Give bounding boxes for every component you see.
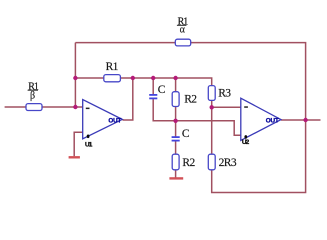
wire C1 bottom to mid line to U2 non-inverting input xyxy=(153,99,241,135)
junction at feedback rail left end xyxy=(73,76,77,80)
op-amp U2 xyxy=(241,98,281,146)
value label R1/alpha fraction xyxy=(177,16,188,35)
wire outer feedback loop: top rail, right vertical, bottom rail xyxy=(75,43,305,193)
resistor R3 body xyxy=(208,86,215,101)
svg-text:OUT: OUT xyxy=(108,118,121,125)
junction at R1-beta / left vertical / U1 inverting input xyxy=(73,105,77,109)
wire rail through R1 to R3 top xyxy=(75,78,211,86)
junction at C1 tap on rail xyxy=(151,76,155,80)
resistor R2 body (upper) xyxy=(172,92,179,107)
svg-text:R3: R3 xyxy=(218,88,231,100)
svg-text:C: C xyxy=(182,128,190,140)
wire R2 bottom through junction to C2 top xyxy=(175,106,177,136)
wire U1 non-inverting input to ground xyxy=(74,132,83,156)
ground GND1 at U1 non-inverting input xyxy=(69,156,80,158)
junction at R2 tap on rail xyxy=(173,76,177,80)
pin plus U2 xyxy=(244,135,247,139)
capacitor C1 plates xyxy=(149,94,157,96)
svg-text:U1: U1 xyxy=(85,142,93,149)
junction at R2 bottom / C2 / mid line xyxy=(173,119,177,123)
resistor R2 body (lower) xyxy=(172,154,179,170)
ground GND2 below lower R2 xyxy=(169,177,183,179)
svg-text:R1: R1 xyxy=(106,61,119,73)
wire input line through R1/beta to U1 inverting input xyxy=(5,106,83,108)
pin plus U1 xyxy=(87,135,90,139)
svg-text:β: β xyxy=(30,91,35,102)
svg-text:R2: R2 xyxy=(182,157,195,169)
resistor R1/alpha body (top feedback) xyxy=(175,39,190,46)
wire lower R2 to ground xyxy=(175,170,177,178)
svg-text:α: α xyxy=(180,24,186,35)
pin minus U2 xyxy=(244,106,248,108)
capacitor C2 plates xyxy=(172,136,180,138)
op-amp U1 xyxy=(83,100,123,149)
wire U1 output up to feedback rail xyxy=(123,78,133,120)
wire left vertical from top rail to input node xyxy=(74,43,76,107)
svg-text:2R3: 2R3 xyxy=(219,157,237,169)
junction at U1 output feedback tap xyxy=(131,76,135,80)
junction at U2 output / right vertical xyxy=(303,118,307,122)
wire R3 bottom to 2R3 top xyxy=(211,100,213,154)
wire U2 output xyxy=(281,119,321,121)
pin minus U1 xyxy=(86,108,90,110)
resistor R1 body (U1 feedback) xyxy=(104,75,121,82)
wire R2 top lead xyxy=(175,78,177,92)
svg-text:C: C xyxy=(158,84,166,96)
resistor R1/beta body (input) xyxy=(26,104,42,111)
svg-text:OUT: OUT xyxy=(266,118,279,125)
svg-text:U2: U2 xyxy=(242,139,250,146)
svg-text:R2: R2 xyxy=(184,94,197,106)
junction node A at R3 bottom / U2 inverting input xyxy=(210,105,214,109)
value label R1/beta fraction xyxy=(28,81,39,101)
wire C2 bottom to lower R2 xyxy=(175,141,177,154)
resistor 2R3 body xyxy=(208,154,215,170)
wire node A to U2 inverting input xyxy=(212,106,241,108)
wire C1 top lead xyxy=(152,78,154,94)
